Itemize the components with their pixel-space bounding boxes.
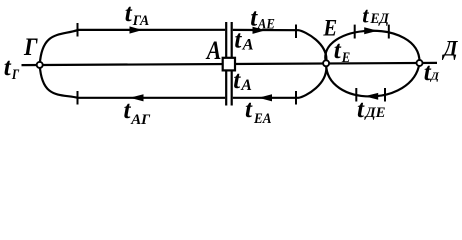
- svg-text:А: А: [242, 37, 254, 54]
- svg-text:АЕ: АЕ: [257, 16, 275, 32]
- svg-text:АГ: АГ: [130, 112, 151, 128]
- label t_А lower: [233, 67, 252, 94]
- svg-text:А: А: [240, 77, 252, 94]
- wire upper path А to Е: [233, 30, 327, 63]
- svg-text:Е: Е: [341, 50, 350, 66]
- svg-text:Д: Д: [442, 36, 459, 61]
- tick on lower А-Г line: [77, 91, 79, 105]
- svg-text:ДЕ: ДЕ: [363, 105, 385, 121]
- arrow left on А-Г line: [130, 94, 144, 101]
- svg-text:Д: Д: [430, 71, 440, 83]
- arrow left on Е-А line: [259, 94, 273, 101]
- label t_Г: [4, 54, 20, 83]
- svg-text:ГА: ГА: [132, 13, 150, 29]
- label t_Д: [424, 59, 440, 86]
- label t_ГА: [125, 0, 150, 29]
- tick right on upper Е-Д arc: [388, 25, 390, 39]
- label t_А upper: [234, 27, 254, 54]
- wire main line Г-Д: [22, 63, 438, 65]
- label t_ДЕ: [357, 96, 386, 123]
- svg-text:А: А: [205, 36, 221, 65]
- tick on lower Е-А line: [295, 91, 297, 105]
- svg-text:t: t: [334, 37, 342, 64]
- wire upper path Г to А: [40, 30, 225, 65]
- svg-text:t: t: [233, 67, 241, 94]
- label А: [205, 36, 221, 65]
- node Е: [323, 60, 329, 66]
- tick on upper Г-А line: [77, 23, 79, 37]
- label t_АЕ: [250, 5, 275, 33]
- wire lower arc Д to Е: [326, 63, 419, 96]
- node Д: [417, 60, 423, 66]
- arrow left on lower Д-Е arc: [365, 93, 379, 100]
- svg-text:t: t: [4, 54, 12, 81]
- svg-text:Г: Г: [23, 34, 38, 61]
- svg-text:t: t: [245, 96, 253, 123]
- station А double vertical lines: [226, 22, 232, 106]
- node Г: [37, 62, 43, 68]
- label Д: [442, 36, 459, 61]
- tick left on upper Е-Д arc: [354, 25, 356, 39]
- tick right on lower Д-Е arc: [384, 88, 386, 102]
- label t_ЕА: [245, 96, 272, 127]
- wire upper arc Е to Д: [325, 31, 419, 64]
- svg-text:t: t: [362, 2, 369, 27]
- label Г: [23, 34, 38, 61]
- svg-text:t: t: [234, 27, 242, 54]
- arrow right on Г-А line: [130, 26, 143, 33]
- arrow right on А-Е line: [253, 27, 266, 34]
- label t_ЕД: [362, 2, 390, 27]
- wire lower path Е to А: [233, 63, 327, 98]
- station А square: [223, 58, 235, 71]
- arrow right on upper Е-Д arc: [364, 27, 378, 34]
- label t_Е: [334, 37, 351, 66]
- svg-text:ЕА: ЕА: [253, 111, 272, 127]
- svg-text:t: t: [357, 96, 365, 123]
- label t_АГ: [124, 97, 152, 128]
- svg-text:Г: Г: [11, 67, 20, 83]
- wire lower path А to Г: [40, 65, 225, 98]
- svg-text:ЕД: ЕД: [369, 11, 389, 27]
- tick left on lower Д-Е arc: [355, 88, 357, 102]
- tick on upper А-Е line: [295, 25, 297, 39]
- svg-text:t: t: [125, 0, 133, 27]
- label Е: [323, 15, 338, 40]
